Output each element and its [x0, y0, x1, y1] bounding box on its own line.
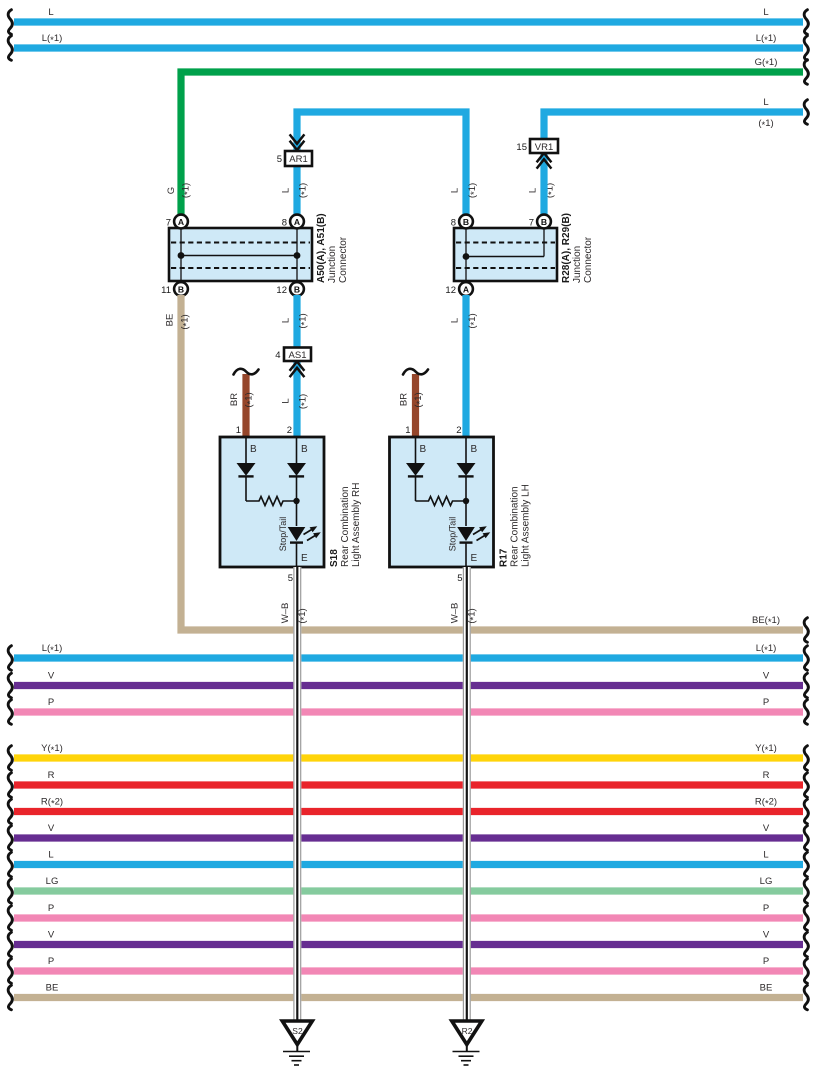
node dot pin8-bus	[294, 252, 301, 259]
chevron arrow above AR1	[290, 134, 305, 150]
svg-text:L: L	[450, 318, 461, 323]
svg-text:LG: LG	[46, 876, 59, 887]
svg-text:V: V	[48, 671, 55, 682]
junction connector R28(A) R29(B) body	[454, 228, 557, 281]
svg-text:V: V	[48, 823, 55, 834]
svg-text:G(*1): G(*1)	[755, 57, 778, 70]
svg-text:B: B	[301, 444, 308, 455]
wire L(*1) AR1 to junction pin 8A	[281, 166, 311, 215]
svg-text:L(*1): L(*1)	[756, 33, 777, 46]
node dot resistor junction RH	[293, 498, 299, 504]
wire LG bus	[8, 876, 808, 903]
svg-text:L(*1): L(*1)	[756, 643, 777, 656]
pin 12 B	[276, 282, 303, 296]
svg-text:(*1): (*1)	[467, 183, 480, 198]
wire L(*1) pin 12B to AS1	[281, 295, 311, 349]
svg-text:7: 7	[529, 218, 534, 229]
svg-text:G: G	[166, 187, 177, 194]
svg-text:V: V	[763, 671, 770, 682]
svg-text:LG: LG	[760, 876, 773, 887]
connector AR1	[277, 151, 312, 166]
LED stop/tail RH	[278, 517, 321, 552]
svg-text:BE: BE	[760, 983, 773, 994]
svg-text:B: B	[178, 284, 184, 294]
svg-text:8: 8	[282, 218, 287, 229]
ground S2	[282, 1021, 312, 1065]
wire W-B shielded from R17 pin 5 to ground R2	[450, 567, 480, 1021]
svg-text:(*1): (*1)	[298, 313, 311, 328]
wire V bus 2	[8, 823, 808, 850]
pin 7 B	[529, 215, 551, 229]
svg-text:BE(*1): BE(*1)	[752, 615, 780, 628]
svg-text:Junction: Junction	[572, 246, 583, 283]
svg-text:5: 5	[288, 573, 293, 584]
svg-text:P: P	[763, 956, 769, 967]
svg-text:Junction: Junction	[327, 246, 338, 283]
pin 7 A	[166, 215, 188, 229]
svg-text:Stop/Tail: Stop/Tail	[448, 517, 458, 552]
svg-text:B: B	[250, 444, 257, 455]
svg-text:S18: S18	[329, 549, 340, 567]
wire L bus lower	[8, 850, 808, 877]
svg-text:L: L	[281, 188, 292, 193]
svg-text:BE: BE	[46, 983, 59, 994]
diode tail RH	[237, 463, 256, 476]
svg-text:Connector: Connector	[338, 236, 349, 283]
chevron arrow below VR1	[537, 153, 552, 169]
node dot R28 bus	[463, 253, 470, 260]
svg-text:P: P	[48, 903, 54, 914]
svg-text:R: R	[48, 770, 55, 781]
svg-text:E: E	[471, 553, 478, 564]
wire G(*1) green	[166, 57, 808, 216]
svg-text:2: 2	[456, 425, 461, 436]
node dot pin7-bus	[178, 252, 185, 259]
svg-text:(*1): (*1)	[297, 608, 310, 623]
svg-text:VR1: VR1	[535, 142, 553, 153]
svg-text:L: L	[281, 318, 292, 323]
svg-text:B: B	[420, 444, 427, 455]
wire V bus 3	[8, 930, 808, 957]
svg-text:AR1: AR1	[289, 154, 307, 165]
svg-text:L: L	[763, 97, 768, 108]
wire L VR1 to junction pin 7B	[540, 153, 547, 215]
svg-text:R(*2): R(*2)	[755, 797, 777, 810]
wire BR to R17 pin 1	[399, 369, 429, 437]
svg-text:A: A	[463, 284, 469, 294]
rear combination light assembly RH S18 body	[220, 425, 324, 584]
svg-text:V: V	[763, 823, 770, 834]
svg-text:A: A	[294, 217, 300, 227]
pin 11 B	[161, 282, 188, 296]
wire L(*1) pin 12A to R17 pin 2	[450, 295, 480, 437]
svg-text:A50(A), A51(B): A50(A), A51(B)	[316, 213, 327, 283]
svg-text:R17: R17	[499, 548, 510, 567]
connector VR1	[516, 139, 558, 153]
svg-text:BR: BR	[229, 393, 240, 406]
svg-text:15: 15	[516, 142, 527, 153]
diode tail LH	[406, 463, 425, 476]
svg-text:(*1): (*1)	[181, 183, 194, 198]
svg-text:Light Assembly RH: Light Assembly RH	[351, 483, 362, 567]
svg-text:B: B	[463, 217, 469, 227]
svg-text:L: L	[763, 850, 768, 861]
svg-text:(*1): (*1)	[244, 392, 257, 407]
svg-text:5: 5	[457, 573, 462, 584]
svg-text:B: B	[471, 444, 478, 455]
wire L(*1) lower bus	[8, 643, 808, 670]
svg-text:L: L	[450, 188, 461, 193]
svg-text:L(*1): L(*1)	[42, 33, 63, 46]
wire W-B shielded from S18 pin 5 to ground S2	[280, 567, 310, 1021]
svg-text:(*1): (*1)	[413, 392, 426, 407]
svg-text:B: B	[294, 284, 300, 294]
svg-text:7: 7	[166, 218, 171, 229]
wire P bus 1	[8, 697, 808, 724]
svg-text:(*1): (*1)	[467, 608, 480, 623]
svg-text:5: 5	[277, 154, 282, 165]
svg-text:B: B	[541, 217, 547, 227]
node dot resistor junction LH	[463, 498, 469, 504]
svg-text:12: 12	[276, 285, 287, 296]
label S18 Rear Combination Light Assembly RH	[329, 483, 362, 567]
svg-text:Y(*1): Y(*1)	[41, 743, 63, 756]
svg-text:Y(*1): Y(*1)	[755, 743, 777, 756]
svg-text:R2: R2	[462, 1026, 473, 1036]
wire BE(*1) from pin 11B to bottom bus	[165, 295, 809, 642]
wire L(*1) from AR1 to R28 pin 8	[297, 112, 480, 215]
svg-text:L(*1): L(*1)	[42, 643, 63, 656]
ground R2	[452, 1021, 482, 1065]
rear combination light assembly LH R17 body	[390, 425, 494, 584]
svg-text:Stop/Tail: Stop/Tail	[278, 517, 288, 552]
svg-text:L: L	[48, 850, 53, 861]
svg-text:4: 4	[275, 350, 280, 361]
svg-text:V: V	[48, 930, 55, 941]
chevron arrow below AS1	[290, 362, 305, 378]
pin 8 A	[282, 215, 304, 229]
svg-text:P: P	[763, 903, 769, 914]
svg-text:W–B: W–B	[280, 603, 291, 624]
wire R(*2) bus	[8, 797, 808, 824]
svg-text:P: P	[763, 697, 769, 708]
wire L(*1) AS1 to S18 pin 2	[281, 360, 311, 437]
svg-text:8: 8	[451, 218, 456, 229]
label A50(A), A51(B) Junction Connector	[316, 213, 349, 283]
svg-text:R(*2): R(*2)	[41, 797, 63, 810]
wire L(*1) from VR1 to right edge	[528, 97, 809, 198]
svg-text:12: 12	[445, 285, 456, 296]
diode stop LH	[457, 463, 476, 476]
wire BR to S18 pin 1	[229, 369, 259, 437]
svg-text:(*1): (*1)	[758, 118, 773, 131]
svg-text:P: P	[48, 956, 54, 967]
svg-text:P: P	[48, 697, 54, 708]
svg-text:1: 1	[405, 425, 410, 436]
svg-text:(*1): (*1)	[298, 183, 311, 198]
svg-text:Rear Combination: Rear Combination	[340, 486, 351, 567]
svg-text:1: 1	[236, 425, 241, 436]
svg-text:(*1): (*1)	[298, 394, 311, 409]
wire R bus	[8, 770, 808, 797]
label R28(A), R29(B) Junction Connector	[561, 213, 594, 283]
svg-text:V: V	[763, 930, 770, 941]
wire Y(*1) bus	[8, 743, 808, 770]
svg-text:L: L	[48, 7, 53, 18]
svg-text:11: 11	[161, 285, 171, 296]
svg-text:L: L	[763, 7, 768, 18]
svg-text:(*1): (*1)	[467, 313, 480, 328]
svg-text:R28(A), R29(B): R28(A), R29(B)	[561, 213, 572, 283]
LED stop/tail LH	[448, 517, 491, 552]
svg-text:2: 2	[287, 425, 292, 436]
wire P bus 3	[8, 956, 808, 983]
wire L top bus	[8, 7, 808, 34]
svg-text:W–B: W–B	[450, 603, 461, 624]
svg-text:Light Assembly LH: Light Assembly LH	[521, 484, 532, 567]
svg-text:L: L	[528, 188, 539, 193]
svg-text:S2: S2	[292, 1026, 303, 1036]
svg-text:BE: BE	[165, 314, 176, 327]
svg-text:E: E	[301, 553, 308, 564]
svg-text:A: A	[178, 217, 184, 227]
svg-text:L: L	[281, 398, 292, 403]
svg-text:BR: BR	[399, 393, 410, 406]
junction connector A50(A) A51(B) body	[169, 228, 312, 281]
svg-text:(*1): (*1)	[180, 314, 193, 329]
pin 8 B	[451, 215, 473, 229]
wire BE bus	[8, 983, 808, 1010]
svg-text:R: R	[763, 770, 770, 781]
wire V bus 1	[8, 671, 808, 698]
pin 12 A	[445, 282, 472, 296]
svg-text:Rear Combination: Rear Combination	[510, 486, 521, 567]
svg-text:AS1: AS1	[289, 350, 307, 361]
label R17 Rear Combination Light Assembly LH	[499, 484, 532, 567]
wire L(*1) second bus	[8, 33, 808, 60]
diode stop RH	[287, 463, 306, 476]
connector AS1	[275, 348, 311, 362]
wire P bus 2	[8, 903, 808, 930]
svg-text:Connector: Connector	[583, 236, 594, 283]
